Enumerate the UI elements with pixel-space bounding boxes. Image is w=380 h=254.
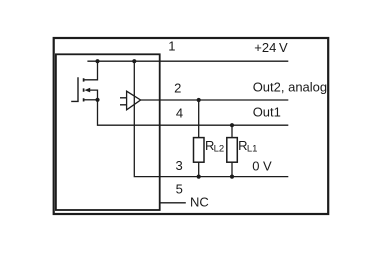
wire: pin 1 rail +24V	[87, 60, 288, 62]
junction dot: RL1 bottom on 0V rail	[230, 175, 234, 179]
op-amp U1 input stubs	[120, 98, 127, 105]
junction dot: source-body tie	[95, 98, 99, 102]
junction dot: drain on +24V rail	[95, 59, 99, 63]
resistor RL1 body	[227, 138, 238, 163]
wire: vertical from +24V rail through amplifier to pin 3 rail 0V	[134, 61, 288, 176]
svg-text:5: 5	[176, 182, 183, 197]
resistor RL1 leads	[231, 125, 233, 176]
svg-text:2: 2	[174, 81, 181, 96]
wire: pin 2 output from amplifier	[141, 99, 289, 101]
resistor RL2 leads	[198, 100, 200, 177]
svg-text:L1: L1	[247, 143, 258, 154]
wire: pin 5 NC stub	[160, 202, 186, 204]
svg-text:0 V: 0 V	[252, 159, 272, 174]
transistor Q1 channel segments	[83, 78, 85, 101]
transistor Q1 body lead	[89, 90, 98, 100]
junction dot: vertical tap on +24V rail	[132, 59, 136, 63]
junction dot: RL2 bottom on 0V rail	[197, 175, 201, 179]
transistor Q1 drain lead	[84, 61, 97, 80]
junction dot: RL2 top on pin 2 rail	[197, 98, 201, 102]
junction dot: RL1 top on pin 4 rail	[230, 123, 234, 127]
wire: MOSFET source down to pin 4 rail Out1	[98, 100, 289, 125]
transistor Q1 gate	[71, 77, 78, 101]
sensor body box	[56, 54, 160, 210]
outer frame	[54, 38, 329, 214]
resistor RL2 body	[194, 138, 205, 163]
svg-text:L2: L2	[214, 143, 225, 154]
svg-text:3: 3	[176, 158, 183, 173]
svg-text:NC: NC	[190, 195, 209, 210]
svg-text:4: 4	[176, 106, 183, 121]
svg-text:Out2, analog: Out2, analog	[253, 80, 327, 95]
svg-text:Out1: Out1	[253, 104, 281, 119]
svg-text:+24 V: +24 V	[254, 40, 288, 55]
svg-text:1: 1	[168, 39, 175, 54]
transistor Q1 source lead	[84, 99, 97, 101]
transistor Q1 body arrow head	[84, 88, 90, 93]
op-amp U1 triangle	[127, 91, 141, 110]
